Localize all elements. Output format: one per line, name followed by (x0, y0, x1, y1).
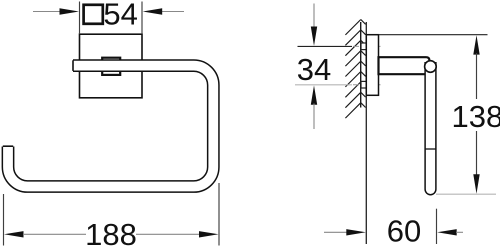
wall inner line (360, 22, 362, 108)
dim 60: left arrow tail (324, 231, 347, 233)
dim 138: bottom extension line (436, 193, 496, 195)
dim 188: right extension line (218, 183, 220, 246)
dim 188: left extension line (3, 194, 5, 246)
roll bar joint line (425, 148, 436, 150)
dim 188: right tail (136, 233, 200, 235)
dim 34: bottom arrowhead (up) (311, 85, 317, 104)
arm (side view) (379, 57, 430, 74)
tube end circle (425, 61, 437, 73)
dim 54: right arrowhead (143, 8, 163, 14)
dim 60: left arrowhead (right) (346, 229, 366, 235)
svg-text:34: 34 (297, 52, 331, 87)
centerline bottom screw (dash-dot) (353, 84, 381, 86)
tube stub top cap (3, 145, 13, 147)
dim 54: left arrow tail (33, 11, 61, 13)
dim 34: top extension line (298, 45, 353, 47)
bottom screw body (361, 81, 366, 88)
dim 138: lower line (476, 131, 478, 177)
dim 54: left extension line (79, 2, 81, 35)
dim 188: right arrowhead (199, 231, 219, 237)
tube U-shape white fill (8, 66, 213, 187)
wall plate (front view) (80, 34, 143, 98)
dim 60: right arrowhead (left) (437, 229, 457, 235)
tube left end cap (72, 60, 74, 71)
dim 34: bottom extension line (295, 84, 352, 86)
dim 60: right extension line (436, 209, 438, 244)
dim 34: top arrow line (313, 4, 315, 29)
svg-text:54: 54 (103, 0, 137, 31)
wall hatching (345, 20, 365, 119)
dim 60: right arrow tail (456, 231, 463, 233)
svg-text:60: 60 (387, 214, 421, 246)
dim 138: bottom arrowhead (down) (473, 174, 479, 193)
dim 54: left arrowhead (60, 8, 80, 14)
svg-text:188: 188 (85, 217, 137, 246)
dim 188: left tail (23, 233, 86, 235)
top screw body (361, 43, 366, 50)
dim 54: right arrow tail (162, 11, 184, 13)
clamp bump on plate (102, 58, 120, 75)
dim 138: top extension line (379, 34, 488, 36)
svg-text:138: 138 (452, 99, 500, 134)
dim 138: top arrowhead (up) (473, 35, 479, 54)
dim 138: upper line (476, 53, 478, 99)
dim 34: bottom arrow line (313, 104, 315, 130)
wall surface line / dim 60 left extension (365, 22, 367, 244)
square symbol (84, 5, 103, 24)
centerline top screw (dash-dot) (353, 45, 381, 47)
dim 34: top arrowhead (down) (311, 27, 317, 46)
dim 54: right extension line (141, 2, 143, 35)
wall plate (side view) (366, 35, 378, 96)
tube U-shape outline (black underlay) (8, 66, 213, 187)
dim 188: left arrowhead (4, 231, 24, 237)
vertical roll bar (side view) (425, 62, 436, 195)
